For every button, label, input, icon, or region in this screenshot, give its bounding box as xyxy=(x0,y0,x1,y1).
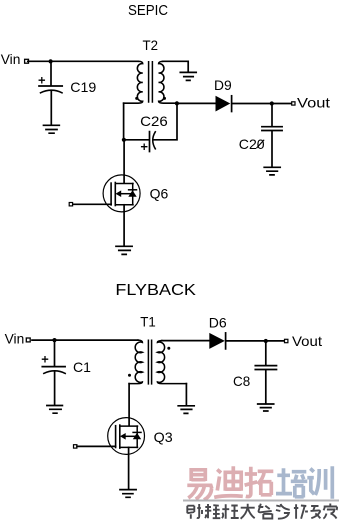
wire T2 secondary bottom to D9 anode xyxy=(177,102,216,104)
svg-text:Vout: Vout xyxy=(292,334,322,349)
transformer T1 secondary winding xyxy=(157,341,186,384)
phase dot T1 secondary xyxy=(167,347,170,350)
watermark logo row 1: pink part + blue part xyxy=(183,466,339,518)
wire C19 to ground xyxy=(50,91,52,125)
watermark tagline (9 glyphs) xyxy=(187,504,337,519)
wire T2 primary bottom down to C26 node xyxy=(123,103,125,139)
phase dot T1 primary xyxy=(128,374,131,377)
ground (C20) xyxy=(264,167,280,175)
terminal Q6 gate xyxy=(69,203,72,206)
svg-text:Q3: Q3 xyxy=(154,430,173,445)
wire T1 secondary top to D6 anode xyxy=(162,340,209,342)
ground (C19) xyxy=(44,125,60,133)
phase dot T2 primary xyxy=(135,97,138,100)
wire C26 node down to Q6 drain xyxy=(123,142,125,183)
transformer T1 primary winding xyxy=(129,340,142,383)
terminal Vin (SEPIC) xyxy=(25,59,29,63)
capacitor C1 xyxy=(42,366,65,368)
svg-text:C1: C1 xyxy=(73,360,91,375)
capacitor C26 plus sign xyxy=(142,144,147,149)
wire C26 left lead xyxy=(126,139,149,141)
terminal Q3 gate xyxy=(74,445,77,448)
capacitor C1 plus sign xyxy=(42,357,47,362)
junction node Vout/C8 xyxy=(264,339,268,343)
wire T1 secondary bottom to ground xyxy=(185,384,187,406)
svg-text:Vout: Vout xyxy=(297,95,330,110)
terminal Vin (FLYBACK) xyxy=(26,338,30,342)
ground (Q3 source) xyxy=(120,490,136,498)
wire C20 to ground xyxy=(271,131,273,167)
watermark char 1 (red) xyxy=(187,468,212,500)
transistor Q6 body circle xyxy=(103,175,140,212)
wire C8 to ground xyxy=(265,370,267,403)
svg-text:Vin: Vin xyxy=(1,52,21,67)
wire Vin rail to T2 primary top xyxy=(28,60,138,62)
wire junction down to C1 xyxy=(54,342,56,367)
wire Q6 source to ground xyxy=(123,205,125,246)
junction node Vout/C20 xyxy=(270,101,274,105)
capacitor C8 xyxy=(255,366,276,370)
svg-text:FLYBACK: FLYBACK xyxy=(115,282,196,299)
svg-text:C8: C8 xyxy=(233,374,251,389)
watermark divider line xyxy=(183,500,339,502)
junction node T2 secondary bottom xyxy=(175,101,179,105)
watermark char 4 (blue) xyxy=(276,468,307,497)
wire D6 cathode to Vout xyxy=(226,340,284,342)
wire C1 to ground xyxy=(54,372,56,405)
svg-text:Q6: Q6 xyxy=(150,187,169,202)
transistor Q6 internals xyxy=(110,183,112,205)
transformer T2 core xyxy=(149,62,153,102)
junction node C26 left xyxy=(122,138,126,142)
junction node Vin/C19 xyxy=(49,59,53,63)
phase dot T2 secondary xyxy=(163,97,166,100)
wire Q6 gate xyxy=(73,203,111,205)
wire C26 right lead up to T2 secondary bottom xyxy=(154,104,177,140)
terminal Vout (SEPIC) xyxy=(292,102,295,105)
transformer T2 primary winding xyxy=(124,61,143,103)
ground (T2 secondary top) xyxy=(180,72,196,80)
wire T1 primary bottom down to Q3 drain xyxy=(128,384,130,426)
wire Vout node down to C20 xyxy=(271,106,273,127)
capacitor C19 plus sign xyxy=(39,78,44,83)
ground (T1 secondary) xyxy=(178,406,194,414)
svg-text:D9: D9 xyxy=(214,78,232,93)
svg-text:C19: C19 xyxy=(70,80,96,95)
capacitor C26 xyxy=(149,132,151,152)
watermark char 3 (red) xyxy=(245,467,274,497)
transistor Q3 internals xyxy=(115,426,117,448)
diode D6 xyxy=(209,333,225,349)
wire junction down to C19 xyxy=(50,63,52,85)
capacitor C20 xyxy=(262,127,282,131)
wire Q3 gate xyxy=(77,445,116,447)
terminal Vout (FLYBACK) xyxy=(285,339,288,342)
wire D9 cathode to Vout xyxy=(232,103,291,105)
capacitor C19 xyxy=(39,85,62,87)
wire Vout node down to C8 xyxy=(265,343,267,365)
svg-text:T2: T2 xyxy=(143,38,159,53)
wire Q3 source to ground xyxy=(128,447,130,489)
svg-text:D6: D6 xyxy=(209,316,227,331)
diode D9 xyxy=(216,96,231,112)
watermark char 5 (blue) xyxy=(307,466,332,499)
svg-text:C20: C20 xyxy=(239,137,265,152)
wire Vin rail to T1 primary top xyxy=(32,339,138,341)
ground (C8) xyxy=(258,404,274,411)
svg-text:C26: C26 xyxy=(140,114,168,129)
watermark char 2 (red) xyxy=(214,466,243,497)
transformer T1 core xyxy=(148,340,151,384)
svg-text:SEPIC: SEPIC xyxy=(128,3,168,19)
svg-text:Vin: Vin xyxy=(5,332,25,347)
junction node Vin/C1 xyxy=(52,338,56,342)
transistor Q3 body circle xyxy=(108,418,145,455)
ground (Q6 source) xyxy=(116,246,132,254)
wire T2 secondary top to ground xyxy=(163,61,188,72)
svg-text:T1: T1 xyxy=(140,315,156,330)
transformer T2 secondary winding xyxy=(159,61,177,103)
ground (C1) xyxy=(47,406,63,414)
